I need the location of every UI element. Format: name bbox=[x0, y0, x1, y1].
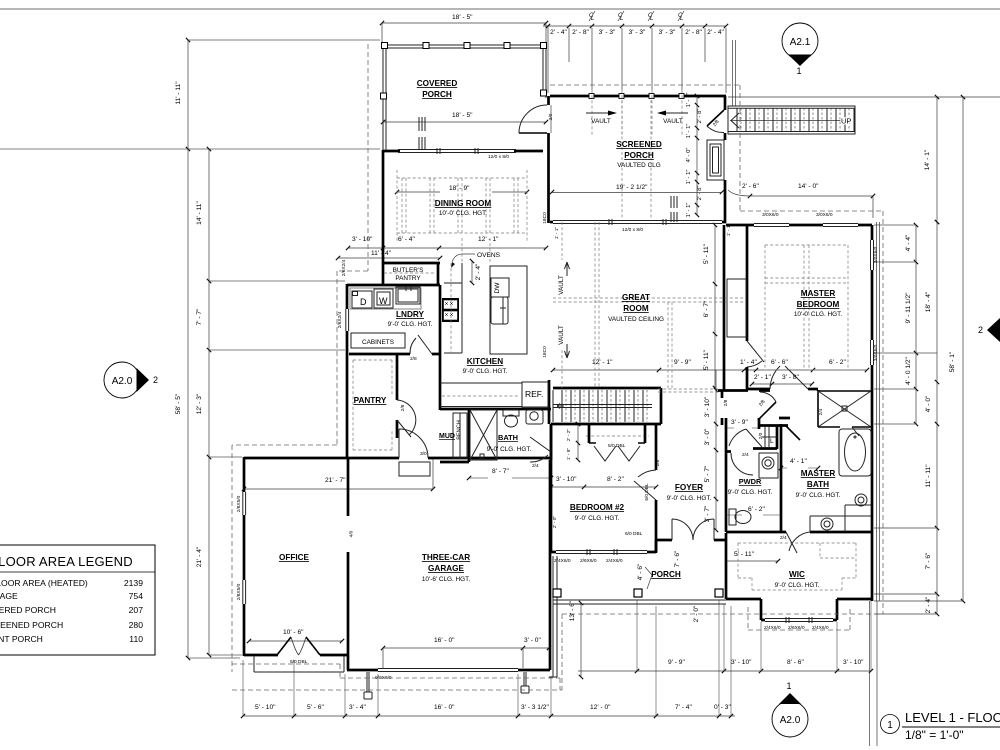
svg-text:280: 280 bbox=[129, 620, 144, 630]
wall: bedroom2 south y=552 w/ windows bbox=[551, 551, 656, 554]
svg-text:10'-0' CLG. HGT.: 10'-0' CLG. HGT. bbox=[439, 210, 487, 217]
dim: ovens 2'-4" bbox=[471, 261, 473, 283]
dim chain: fireplace x=697 bbox=[696, 96, 698, 215]
svg-text:8' - 2": 8' - 2" bbox=[607, 476, 624, 483]
svg-text:9' - 9": 9' - 9" bbox=[668, 659, 685, 666]
svg-text:9'-0' CLG. HGT.: 9'-0' CLG. HGT. bbox=[388, 321, 433, 328]
svg-text:11' - 4": 11' - 4" bbox=[371, 250, 392, 257]
svg-text:3/0X6/0: 3/0X6/0 bbox=[816, 212, 833, 218]
wall: bath/kitchen divider y=409 bbox=[440, 408, 551, 411]
wic shelves dashed bbox=[738, 543, 856, 590]
svg-text:12' - 0": 12' - 0" bbox=[590, 704, 611, 711]
svg-text:OVENS: OVENS bbox=[477, 252, 501, 259]
fireplace box bbox=[707, 140, 724, 180]
svg-text:3' - 3": 3' - 3" bbox=[599, 29, 616, 36]
laundry D and W bbox=[352, 287, 420, 308]
svg-text:58' - 5": 58' - 5" bbox=[175, 393, 182, 414]
svg-text:9'-0' CLG. HGT.: 9'-0' CLG. HGT. bbox=[775, 582, 820, 589]
svg-text:0' - 3": 0' - 3" bbox=[714, 704, 731, 711]
svg-text:3' - 0": 3' - 0" bbox=[524, 637, 541, 644]
wall: master suite north y=225 bbox=[726, 224, 872, 227]
roof overhang west bbox=[232, 44, 368, 672]
master bed dashed bbox=[765, 245, 848, 370]
dim: 11'-4" bbox=[338, 257, 440, 259]
wall: bedroom2 west x=551 bbox=[550, 424, 553, 553]
roof overhang east bbox=[740, 85, 883, 614]
porch overhang dashed bbox=[440, 614, 883, 690]
svg-text:VAULTED CEILING: VAULTED CEILING bbox=[608, 316, 664, 323]
svg-text:5' - 11": 5' - 11" bbox=[703, 349, 710, 370]
svg-text:2: 2 bbox=[978, 325, 983, 335]
svg-text:7' - 7": 7' - 7" bbox=[196, 308, 203, 325]
pwdr sink vanity bbox=[759, 453, 778, 478]
svg-text:16' - 0": 16' - 0" bbox=[434, 637, 455, 644]
dim row2 bottom y=716 bbox=[243, 715, 735, 717]
svg-text:1: 1 bbox=[887, 720, 893, 731]
great room ridge dashed bbox=[553, 222, 745, 389]
svg-text:3' - 10": 3' - 10" bbox=[352, 236, 373, 243]
svg-text:BATH: BATH bbox=[498, 433, 518, 442]
dim: 21'-7" bbox=[244, 488, 433, 490]
svg-text:2' - 8": 2' - 8" bbox=[697, 186, 703, 201]
door: garage entry (3/0) bbox=[399, 429, 428, 458]
wall: kitchen SE corner bbox=[548, 380, 551, 424]
svg-text:18' - 5": 18' - 5" bbox=[452, 112, 473, 119]
marker A2.1 top bbox=[782, 23, 818, 59]
dim chain: dining top y=248 bbox=[348, 247, 546, 249]
svg-text:2: 2 bbox=[153, 375, 158, 385]
svg-text:2/0: 2/0 bbox=[758, 432, 764, 439]
svg-text:5' - 10": 5' - 10" bbox=[255, 704, 276, 711]
wic bay overhang bbox=[748, 607, 850, 630]
master closet cabinet bbox=[727, 279, 746, 337]
walls: wic south + bay bbox=[726, 599, 872, 620]
svg-text:2/8X5/0: 2/8X5/0 bbox=[236, 495, 242, 512]
wall: laundry east / kitchen west x=440 bbox=[349, 285, 440, 410]
downspout garage left bbox=[364, 672, 372, 699]
wall: master bedroom west x=747 bbox=[746, 225, 749, 390]
svg-text:10' - 6": 10' - 6" bbox=[283, 629, 304, 636]
dim: covered porch inner 18'-5" bbox=[383, 121, 546, 123]
svg-text:11' - 11": 11' - 11" bbox=[175, 81, 182, 105]
svg-text:VAULT: VAULT bbox=[663, 118, 683, 125]
svg-text:8' - 6": 8' - 6" bbox=[787, 659, 804, 666]
wall: dining west x=383 bbox=[382, 150, 385, 286]
windows office west 2/8x5/0 bbox=[243, 492, 246, 604]
master wc toilet bbox=[853, 489, 859, 501]
svg-text:VAULT: VAULT bbox=[558, 275, 565, 295]
svg-text:MASTER: MASTER bbox=[801, 469, 836, 478]
wall: laundry north y=285 bbox=[347, 284, 440, 287]
wall: screened porch north y=96 bbox=[550, 95, 726, 98]
door: master bath entry bbox=[786, 426, 800, 440]
svg-text:3' - 10": 3' - 10" bbox=[704, 396, 711, 417]
svg-text:L: L bbox=[770, 438, 774, 445]
wall: bedroom2 north / stair south y=424 bbox=[551, 423, 661, 426]
svg-text:2' - 8": 2' - 8" bbox=[685, 29, 702, 36]
svg-text:6' - 2": 6' - 2" bbox=[829, 359, 846, 366]
svg-text:9'-0' CLG. HGT.: 9'-0' CLG. HGT. bbox=[728, 489, 773, 496]
door: laundry to kitchen hall (2/8) bbox=[410, 335, 432, 354]
wall: hall/master-bath north y=390 bbox=[718, 389, 770, 392]
svg-text:UP: UP bbox=[841, 117, 851, 126]
garage door panel bbox=[378, 669, 518, 672]
svg-text:BEDROOM #2: BEDROOM #2 bbox=[570, 503, 625, 512]
svg-text:D: D bbox=[360, 297, 367, 307]
wall: house north (dining) y=150 bbox=[383, 150, 543, 153]
svg-text:9'-0' CLG. HGT.: 9'-0' CLG. HGT. bbox=[463, 368, 508, 375]
svg-text:6' - 2": 6' - 2" bbox=[748, 506, 765, 513]
window 12/0x8/0 north wall bbox=[398, 148, 516, 154]
master bath hall jog bbox=[779, 390, 818, 418]
wall: pantry interior x=397 bbox=[396, 354, 399, 438]
dim: office 10'-6" bbox=[249, 640, 342, 642]
svg-text:3' - 0": 3' - 0" bbox=[704, 428, 711, 445]
wall: master bedroom south y=389 bbox=[722, 389, 818, 425]
wall: east exterior x=872 bbox=[871, 225, 874, 601]
dim row: y=384 master sub bbox=[752, 383, 812, 385]
svg-text:9'-0' CLG. HGT.: 9'-0' CLG. HGT. bbox=[487, 446, 532, 453]
wall: pwdr top y=418 bbox=[726, 418, 788, 452]
svg-text:3' - 10": 3' - 10" bbox=[843, 659, 864, 666]
kitchen counter south + REF bbox=[440, 382, 548, 407]
downspout garage right bbox=[521, 672, 529, 693]
svg-text:COVERED PORCH: COVERED PORCH bbox=[0, 605, 56, 615]
svg-text:A2.1: A2.1 bbox=[790, 37, 811, 48]
dim: right 14'-1" bbox=[936, 97, 938, 222]
svg-text:KITCHEN: KITCHEN bbox=[467, 357, 503, 366]
svg-text:VAULTED CLG: VAULTED CLG bbox=[617, 162, 660, 169]
svg-text:13' - 6": 13' - 6" bbox=[569, 600, 576, 621]
svg-text:8' - 7": 8' - 7" bbox=[492, 468, 509, 475]
dim col: great room x=715 bbox=[714, 225, 716, 388]
dim row: garage bottom y=648 bbox=[383, 647, 549, 649]
svg-text:PWDR: PWDR bbox=[739, 477, 762, 486]
pwdr toilet bbox=[729, 509, 751, 525]
wall: west laundry/pantry x=347 bbox=[346, 284, 349, 458]
svg-text:A2.0: A2.0 bbox=[112, 376, 133, 387]
stair interior bbox=[553, 390, 652, 422]
title block bbox=[881, 715, 900, 734]
door: bath (2/4) bbox=[530, 437, 551, 462]
svg-text:DW: DW bbox=[494, 282, 501, 294]
svg-text:WIC: WIC bbox=[789, 570, 805, 579]
svg-text:58' - 1": 58' - 1" bbox=[949, 351, 956, 372]
door: porch to dining (3/0) at north wall bbox=[519, 132, 547, 134]
svg-text:3' - 3": 3' - 3" bbox=[659, 29, 676, 36]
wall: east spine x=726 bbox=[725, 418, 728, 599]
dim col left A x=188 bbox=[187, 40, 189, 658]
svg-text:1' - 1": 1' - 1" bbox=[554, 227, 560, 240]
svg-text:1' - 1": 1' - 1" bbox=[686, 203, 692, 218]
cabinets box bbox=[351, 333, 405, 348]
svg-text:12' - 1": 12' - 1" bbox=[478, 236, 499, 243]
section line bbox=[870, 222, 880, 746]
office door stoop bbox=[254, 656, 344, 672]
dim col left B x=209 bbox=[208, 149, 210, 655]
svg-text:9'-0' CLG. HGT.: 9'-0' CLG. HGT. bbox=[796, 492, 841, 499]
wall: office west x=244 bbox=[243, 457, 246, 656]
svg-text:3' - 10": 3' - 10" bbox=[731, 659, 752, 666]
marker right edge 2 bbox=[987, 318, 1000, 342]
svg-text:2' - 8": 2' - 8" bbox=[572, 29, 589, 36]
svg-text:5' - 11": 5' - 11" bbox=[703, 243, 710, 264]
svg-text:LEVEL 1 - FLOO: LEVEL 1 - FLOO bbox=[905, 710, 1000, 725]
page top border bbox=[0, 8, 1000, 10]
svg-text:11' - 11": 11' - 11" bbox=[925, 464, 932, 488]
porch posts bbox=[381, 43, 547, 100]
svg-text:6' - 4": 6' - 4" bbox=[398, 236, 415, 243]
svg-text:7' - 4": 7' - 4" bbox=[675, 704, 692, 711]
svg-text:2' - 4": 2' - 4" bbox=[925, 596, 932, 613]
roof overhang screened porch top bbox=[550, 84, 740, 86]
svg-text:ROOM: ROOM bbox=[623, 304, 649, 313]
door: bedroom2 (2/8 into room) bbox=[634, 470, 656, 500]
label: vault arrows screened porch bbox=[591, 118, 683, 125]
svg-text:6' - 6": 6' - 6" bbox=[771, 359, 788, 366]
svg-text:2/6X2/4: 2/6X2/4 bbox=[337, 311, 343, 328]
windows master east 3/0x6/0 bbox=[871, 240, 874, 365]
svg-text:LNDRY: LNDRY bbox=[396, 310, 424, 319]
svg-text:9'-0' CLG. HGT.: 9'-0' CLG. HGT. bbox=[667, 495, 712, 502]
svg-text:THREE-CAR: THREE-CAR bbox=[422, 553, 470, 562]
svg-text:5' - 6": 5' - 6" bbox=[307, 704, 324, 711]
door: master bedroom west closet bbox=[747, 341, 764, 367]
svg-text:2/4X6/0: 2/4X6/0 bbox=[606, 558, 623, 564]
svg-text:4/0: 4/0 bbox=[349, 530, 355, 537]
svg-text:19' - 2 1/2": 19' - 2 1/2" bbox=[616, 184, 648, 191]
master vanity bbox=[810, 494, 871, 532]
covered porch edge bbox=[383, 45, 546, 150]
svg-text:FLOOR AREA (HEATED): FLOOR AREA (HEATED) bbox=[0, 578, 88, 588]
wall: screened porch east x=725 bbox=[724, 96, 727, 223]
svg-text:FLOOR AREA LEGEND: FLOOR AREA LEGEND bbox=[0, 554, 133, 569]
svg-text:SCREENED: SCREENED bbox=[616, 140, 662, 149]
svg-text:6/0 DBL: 6/0 DBL bbox=[625, 531, 643, 537]
windows master north 3/0x6/0 bbox=[754, 224, 858, 227]
dim col: pwdr hall x=716 bbox=[715, 370, 717, 530]
door: front double 6/0 bbox=[672, 519, 714, 540]
wall: mud/bath interior bbox=[440, 409, 469, 462]
svg-text:2/6X6/0: 2/6X6/0 bbox=[580, 558, 597, 564]
svg-text:PORCH: PORCH bbox=[422, 90, 452, 99]
svg-text:207: 207 bbox=[129, 605, 144, 615]
door: master bath inner bbox=[839, 426, 841, 428]
svg-text:10'-6' CLG. HGT.: 10'-6' CLG. HGT. bbox=[422, 576, 470, 583]
svg-text:4' - 1": 4' - 1" bbox=[790, 458, 807, 465]
svg-text:7' - 6": 7' - 6" bbox=[925, 552, 932, 569]
master tub bbox=[839, 429, 871, 476]
bedroom2 closet shelf bbox=[586, 435, 649, 437]
svg-text:PANTRY: PANTRY bbox=[354, 396, 387, 405]
svg-text:3' - 3 1/2": 3' - 3 1/2" bbox=[521, 704, 549, 711]
svg-text:754: 754 bbox=[129, 591, 144, 601]
stair upper (to screened porch) bbox=[728, 106, 855, 134]
bedroom2 closet bifold doors bbox=[594, 446, 640, 461]
wall: stair north y=388 bbox=[553, 387, 661, 390]
svg-text:16' - 0": 16' - 0" bbox=[434, 704, 455, 711]
svg-text:5/0 DBL: 5/0 DBL bbox=[608, 443, 626, 449]
svg-text:3' - 10": 3' - 10" bbox=[556, 476, 577, 483]
mud bench bbox=[453, 413, 467, 458]
svg-text:DINING ROOM: DINING ROOM bbox=[435, 199, 492, 208]
svg-text:4' - 0 1/2": 4' - 0 1/2" bbox=[905, 356, 912, 384]
svg-text:18C0: 18C0 bbox=[542, 212, 548, 224]
front porch posts bbox=[553, 589, 723, 597]
wall: office/garage divider x=348 bbox=[347, 458, 350, 670]
garage stoop bbox=[399, 462, 430, 476]
svg-text:2' - 2": 2' - 2" bbox=[566, 429, 572, 442]
svg-text:3' - 3": 3' - 3" bbox=[629, 29, 646, 36]
wall: master closet spine x=724 bbox=[723, 225, 726, 390]
svg-text:2' - 4": 2' - 4" bbox=[550, 29, 567, 36]
svg-text:5' - 11": 5' - 11" bbox=[734, 551, 755, 558]
svg-text:2139: 2139 bbox=[124, 578, 143, 588]
wall: office south y=655 bbox=[244, 654, 348, 657]
svg-text:SCREENED PORCH: SCREENED PORCH bbox=[0, 620, 63, 630]
butlers pantry dash bbox=[384, 272, 436, 274]
dim: wic 5'-11" bbox=[726, 560, 778, 562]
dim: 2'-6" / 14'-0" above master bbox=[750, 195, 873, 197]
dim chain: screened porch top bbox=[543, 25, 726, 27]
kitchen dashed bbox=[451, 238, 490, 353]
svg-text:BEDROOM: BEDROOM bbox=[797, 300, 840, 309]
svg-text:COVERED: COVERED bbox=[417, 79, 458, 88]
dim: dining 18'-9" bbox=[397, 191, 527, 193]
pantry shelves dashed bbox=[353, 360, 392, 450]
wall: pwdr/wic divider y=532 bbox=[726, 531, 872, 534]
windows wic bay bbox=[765, 617, 833, 623]
range / cooktop bbox=[442, 298, 459, 322]
svg-text:2' - 6": 2' - 6" bbox=[742, 183, 759, 190]
svg-text:18' - 4": 18' - 4" bbox=[925, 291, 932, 312]
svg-text:1' - 1": 1' - 1" bbox=[686, 124, 692, 139]
svg-text:2/8: 2/8 bbox=[723, 399, 729, 406]
svg-text:PORCH: PORCH bbox=[624, 151, 654, 160]
svg-text:1: 1 bbox=[786, 681, 791, 691]
svg-text:2/8: 2/8 bbox=[400, 404, 406, 411]
svg-text:18' - 5": 18' - 5" bbox=[452, 14, 473, 21]
kitchen island w/ DW + sink bbox=[490, 266, 527, 354]
svg-text:10'-0' CLG. HGT.: 10'-0' CLG. HGT. bbox=[794, 311, 842, 318]
door: hall to master hall bbox=[758, 402, 776, 420]
ovens cabinet bbox=[444, 263, 462, 353]
svg-text:W: W bbox=[379, 296, 388, 306]
svg-text:9' - 9": 9' - 9" bbox=[674, 359, 691, 366]
wall: shower box bbox=[818, 391, 871, 427]
svg-text:CABINETS: CABINETS bbox=[362, 339, 394, 346]
svg-text:9'-0' CLG. HGT.: 9'-0' CLG. HGT. bbox=[575, 515, 620, 522]
svg-text:REF.: REF. bbox=[525, 389, 543, 399]
svg-text:2/6X2/4: 2/6X2/4 bbox=[341, 259, 347, 276]
svg-text:1' - 1": 1' - 1" bbox=[686, 170, 692, 185]
door: screened porch NE (2/8) bbox=[707, 110, 724, 126]
svg-text:BUTLER'S: BUTLER'S bbox=[393, 267, 424, 274]
wall: screened porch west x=550 bbox=[547, 96, 550, 223]
svg-text:3' - 4": 3' - 4" bbox=[349, 704, 366, 711]
svg-text:2' - 1": 2' - 1" bbox=[754, 374, 771, 381]
centerline symbols bbox=[589, 11, 684, 22]
svg-text:2/8: 2/8 bbox=[758, 399, 767, 408]
svg-text:2/8X5/0: 2/8X5/0 bbox=[236, 583, 242, 600]
svg-text:1: 1 bbox=[796, 66, 801, 76]
svg-text:VAULT: VAULT bbox=[558, 325, 565, 345]
wall: bedroom2 east x=656 bbox=[655, 424, 658, 552]
svg-text:4' - 0": 4' - 0" bbox=[686, 148, 692, 163]
svg-text:2' - 4": 2' - 4" bbox=[475, 263, 482, 280]
dim row: y=365 great/master bbox=[553, 369, 867, 371]
svg-text:110: 110 bbox=[129, 634, 143, 644]
svg-text:1/8" = 1'-0": 1/8" = 1'-0" bbox=[905, 728, 964, 742]
svg-text:14' - 11": 14' - 11" bbox=[196, 201, 203, 225]
bath shower bbox=[470, 410, 497, 460]
svg-text:GARAGE: GARAGE bbox=[0, 591, 18, 601]
door: pwdr entry bbox=[729, 429, 762, 447]
svg-text:GARAGE: GARAGE bbox=[428, 564, 464, 573]
svg-text:18' - 9": 18' - 9" bbox=[449, 185, 470, 192]
dim: covered porch top 18'-5" bbox=[382, 22, 546, 24]
svg-text:GREAT: GREAT bbox=[622, 293, 650, 302]
dining ceiling beams dashed bbox=[397, 170, 527, 241]
svg-text:2/4: 2/4 bbox=[780, 535, 787, 541]
svg-text:18C0: 18C0 bbox=[542, 346, 548, 358]
wall: garage south y=670 bbox=[347, 669, 550, 672]
dim col right x=937 bbox=[936, 222, 938, 614]
top dim extension dashed verticals bbox=[592, 90, 682, 135]
label: vault arrows great room bbox=[558, 275, 565, 345]
bath toilet bbox=[503, 410, 519, 427]
screened porch dashed bbox=[622, 100, 651, 218]
svg-text:1' - 9": 1' - 9" bbox=[566, 448, 572, 461]
door: wic entry (2/4) bbox=[786, 532, 810, 553]
wall: stair east x=661 bbox=[660, 388, 663, 424]
svg-text:BATH: BATH bbox=[807, 480, 829, 489]
wall: pantry/mud south y=458 with garage entry gap bbox=[244, 457, 551, 460]
svg-text:3/0: 3/0 bbox=[420, 451, 427, 457]
svg-text:3' - 9": 3' - 9" bbox=[731, 419, 748, 426]
svg-text:FRONT PORCH: FRONT PORCH bbox=[0, 634, 43, 644]
reference line top right bbox=[728, 96, 1000, 98]
svg-text:OFFICE: OFFICE bbox=[279, 553, 310, 562]
svg-text:2' - 4": 2' - 4" bbox=[707, 29, 724, 36]
dim: screened porch 19'-2 1/2" bbox=[552, 192, 722, 194]
door: pwdr top (2/0) bbox=[731, 453, 753, 475]
screen door tracks bbox=[419, 117, 677, 222]
door: pantry (2/8) bbox=[397, 400, 416, 437]
svg-text:PORCH: PORCH bbox=[651, 570, 681, 579]
svg-text:4' - 6": 4' - 6" bbox=[637, 563, 644, 580]
svg-text:2' - 8": 2' - 8" bbox=[697, 109, 703, 124]
svg-text:14' - 1": 14' - 1" bbox=[924, 149, 931, 170]
svg-text:4' - 0": 4' - 0" bbox=[925, 395, 932, 412]
svg-text:12/0 x 8/0: 12/0 x 8/0 bbox=[488, 154, 509, 160]
wall: foyer front y=540 bbox=[656, 540, 726, 553]
svg-text:12' - 3": 12' - 3" bbox=[196, 393, 203, 414]
wall: screened porch south y=222 w/ window bbox=[550, 221, 726, 224]
svg-text:2/4: 2/4 bbox=[818, 408, 824, 415]
dim: right 58'-1" bbox=[962, 97, 964, 601]
dim row1 bottom right y=671 bbox=[578, 670, 871, 672]
dim: bedroom2 row y=487 bbox=[551, 486, 656, 488]
svg-text:6' - 7": 6' - 7" bbox=[703, 300, 710, 317]
wall: garage east x=550 bbox=[550, 424, 551, 670]
svg-text:14' - 0": 14' - 0" bbox=[798, 183, 819, 190]
svg-text:5' - 7": 5' - 7" bbox=[704, 465, 711, 482]
svg-text:7' - 6": 7' - 6" bbox=[674, 550, 681, 567]
wall: pwdr east x=779 bbox=[780, 424, 783, 532]
svg-text:21' - 4": 21' - 4" bbox=[196, 546, 203, 567]
legend box bbox=[0, 545, 155, 655]
